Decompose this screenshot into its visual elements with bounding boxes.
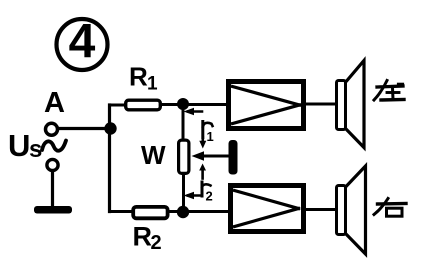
- svg-text:W: W: [141, 140, 166, 170]
- svg-text:R: R: [129, 62, 148, 92]
- svg-text:U: U: [8, 128, 30, 163]
- svg-text:2: 2: [151, 232, 162, 254]
- svg-text:2: 2: [206, 189, 213, 204]
- svg-text:1: 1: [207, 129, 214, 144]
- svg-text:R: R: [133, 222, 153, 252]
- svg-text:A: A: [44, 87, 65, 119]
- svg-text:4: 4: [69, 16, 96, 69]
- svg-text:1: 1: [147, 74, 158, 95]
